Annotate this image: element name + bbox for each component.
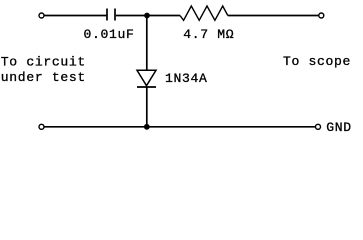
input terminal top (open circle) [39, 13, 44, 18]
svg-text:GND: GND [326, 120, 352, 135]
svg-text:4.7 MΩ: 4.7 MΩ [183, 27, 234, 42]
capacitor C1 right plate [114, 9, 116, 21]
wire (ground rail) [44, 126, 315, 128]
svg-text:To scope: To scope [283, 54, 351, 69]
wire [44, 15, 106, 17]
resistor R1 zigzag [180, 6, 228, 20]
output terminal top (open circle) [319, 13, 324, 18]
svg-text:To circuit: To circuit [1, 55, 86, 70]
input terminal bottom (open circle) [39, 124, 44, 129]
wire (vertical from diode to ground rail) [146, 87, 148, 127]
svg-text:0.01uF: 0.01uF [84, 27, 135, 42]
diode D1 cathode bar [137, 86, 156, 88]
svg-text:1N34A: 1N34A [165, 71, 208, 86]
node junction dot (cap/resistor/diode) [144, 13, 150, 19]
wire (vertical from node to diode) [146, 16, 148, 71]
capacitor C1 left plate [106, 9, 108, 21]
svg-text:under test: under test [1, 70, 86, 85]
wire [228, 15, 319, 17]
node junction dot (ground rail) [144, 124, 150, 130]
diode D1 triangle (anode) [137, 70, 156, 85]
wire [116, 15, 180, 17]
output terminal bottom (open circle) [316, 124, 321, 129]
